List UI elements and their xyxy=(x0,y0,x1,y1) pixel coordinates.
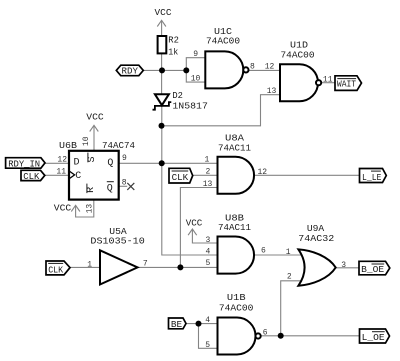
svg-text:L_OE: L_OE xyxy=(362,332,385,343)
flag B_OE output xyxy=(359,261,390,275)
svg-text:12: 12 xyxy=(258,168,268,177)
power VCC below U6B xyxy=(54,202,80,213)
wire RDY to U1C input node xyxy=(143,69,186,71)
svg-text:74AC00: 74AC00 xyxy=(206,36,240,47)
svg-text:R2: R2 xyxy=(168,34,179,45)
svg-text:74AC00: 74AC00 xyxy=(219,302,254,313)
svg-text:B_OE: B_OE xyxy=(361,264,384,275)
wire VCC to U8B pin3 xyxy=(192,229,217,243)
wire U6B pin13 to VCC xyxy=(76,200,94,217)
junction Q net node xyxy=(159,160,165,166)
svg-text:7: 7 xyxy=(143,259,148,268)
wire BE to U1B pin4 xyxy=(186,323,218,325)
svg-text:13: 13 xyxy=(267,87,277,96)
svg-text:D: D xyxy=(74,158,80,169)
svg-text:2: 2 xyxy=(205,168,210,177)
wire U9A pin2 riser from U1B out xyxy=(281,281,303,336)
junction BE node xyxy=(196,321,202,327)
flag CLK input (U8A) active low xyxy=(169,168,193,183)
svg-text:10: 10 xyxy=(82,136,91,146)
wire U1D out to WAIT xyxy=(321,82,335,84)
wire U8B out to U9A pin1 xyxy=(254,254,303,256)
svg-text:RDY: RDY xyxy=(122,66,139,77)
wire RDY_IN to U6B D xyxy=(45,162,69,164)
nand U1C 74AC00 xyxy=(191,26,255,88)
flag RDY_IN input xyxy=(6,158,45,170)
junction D2 cathode node xyxy=(159,123,165,129)
junction delayed clock node xyxy=(177,264,183,270)
flag BE input xyxy=(169,318,187,330)
svg-text:4: 4 xyxy=(205,316,210,325)
wire U1C out to U1D pin12 xyxy=(249,69,281,71)
svg-text:74AC11: 74AC11 xyxy=(218,222,251,233)
svg-text:11: 11 xyxy=(56,167,66,176)
svg-text:Q: Q xyxy=(107,184,113,195)
svg-text:1: 1 xyxy=(286,248,291,257)
flag CLK input (U5A) active low xyxy=(46,261,70,275)
svg-text:Q: Q xyxy=(107,158,113,169)
wire U1B out to L_OE xyxy=(261,335,360,337)
svg-text:5: 5 xyxy=(205,341,210,350)
svg-text:VCC: VCC xyxy=(54,202,72,213)
svg-text:12: 12 xyxy=(265,62,275,71)
wire VCC stem to R2 top xyxy=(161,21,163,37)
wire U1C pin9 L xyxy=(186,58,205,71)
svg-text:13: 13 xyxy=(86,204,95,214)
svg-text:DS1035-10: DS1035-10 xyxy=(90,235,145,246)
flag WAIT output active low xyxy=(335,76,362,91)
wire U1C pin10 L xyxy=(186,70,205,82)
svg-text:74AC74: 74AC74 xyxy=(102,140,135,151)
junction RDY node xyxy=(159,67,165,73)
svg-text:11: 11 xyxy=(323,75,333,84)
wire R2 bottom through RDY node to D2 anode xyxy=(161,53,163,94)
svg-text:U6B: U6B xyxy=(59,140,77,151)
svg-text:8: 8 xyxy=(122,179,127,188)
svg-text:6: 6 xyxy=(261,246,266,255)
wire U8A pin13 to delayed clock node xyxy=(180,188,217,268)
wire U6B Qbar stub xyxy=(119,185,128,187)
flag L_OE output xyxy=(360,329,390,343)
junction U1C input node xyxy=(183,67,189,73)
svg-text:VCC: VCC xyxy=(186,217,203,228)
and U8A 74AC11 xyxy=(203,133,268,194)
svg-text:WAIT: WAIT xyxy=(337,79,357,90)
svg-text:4: 4 xyxy=(205,247,210,256)
wire node to U1D pin13 riser xyxy=(162,95,281,126)
svg-text:1: 1 xyxy=(204,156,209,165)
svg-text:D2: D2 xyxy=(172,90,183,101)
power VCC at U8B pin3 xyxy=(186,217,203,235)
svg-text:5: 5 xyxy=(205,259,210,268)
svg-text:VCC: VCC xyxy=(86,112,104,123)
svg-text:8: 8 xyxy=(250,62,255,71)
svg-text:CLK: CLK xyxy=(48,264,63,275)
wire U5A out to U8B pin5 xyxy=(138,266,218,268)
wire CLK to U6B C xyxy=(45,174,69,176)
svg-text:10: 10 xyxy=(191,74,201,83)
wire U8A out to L_LE xyxy=(254,174,360,176)
svg-text:1N5817: 1N5817 xyxy=(172,101,208,112)
wire U6B Q to U8A pin1 xyxy=(119,162,218,164)
svg-text:VCC: VCC xyxy=(155,7,172,18)
flag RDY (bidirectional) xyxy=(116,65,143,77)
svg-text:9: 9 xyxy=(122,154,127,163)
power VCC top (R2) xyxy=(155,7,172,27)
svg-text:R: R xyxy=(86,187,97,193)
svg-text:12: 12 xyxy=(57,155,67,164)
flip-flop U6B 74AC74 xyxy=(56,136,135,213)
nand U1B 74AC00 xyxy=(205,292,268,354)
svg-text:74AC00: 74AC00 xyxy=(281,50,315,61)
svg-text:BE: BE xyxy=(171,319,183,330)
svg-text:9: 9 xyxy=(193,50,198,59)
resistor R2 xyxy=(158,34,180,57)
junction L_OE node xyxy=(278,333,284,339)
svg-text:1: 1 xyxy=(87,260,92,269)
svg-text:S: S xyxy=(87,156,98,162)
wire CLK flag to U8A pin2 xyxy=(193,174,218,176)
svg-text:3: 3 xyxy=(341,261,346,270)
wire D2 cathode down to U8B pin4 bend xyxy=(162,106,218,255)
and U8B 74AC11 xyxy=(205,212,266,273)
svg-text:CLK: CLK xyxy=(172,172,189,183)
nand U1D 74AC00 xyxy=(265,40,333,101)
buffer U5A DS1035-10 xyxy=(87,226,148,285)
svg-text:CLK: CLK xyxy=(23,171,39,182)
clock triangle xyxy=(69,171,75,179)
svg-text:C: C xyxy=(75,171,81,182)
svg-text:2: 2 xyxy=(287,272,292,281)
no-connect X on Q-bar xyxy=(127,183,134,190)
svg-text:74AC11: 74AC11 xyxy=(218,142,251,153)
flag L_LE output xyxy=(360,169,387,183)
wire U6B pin10 VCC stub xyxy=(93,126,95,151)
wire U9A out to B_OE xyxy=(336,267,359,269)
flag CLK input (U6B) xyxy=(21,170,45,182)
svg-text:RDY_IN: RDY_IN xyxy=(8,158,40,169)
svg-text:L_LE: L_LE xyxy=(362,172,382,183)
svg-text:U9A: U9A xyxy=(307,223,325,234)
svg-text:6: 6 xyxy=(263,328,268,337)
power VCC above U6B xyxy=(86,112,104,132)
diode D2 1N5817 xyxy=(153,90,208,112)
wire CLK to U5A in xyxy=(70,266,100,268)
svg-text:74AC32: 74AC32 xyxy=(298,233,334,244)
wire BE node to U1B pin5 xyxy=(199,324,218,349)
or U9A 74AC32 xyxy=(286,223,347,286)
svg-text:3: 3 xyxy=(205,236,210,245)
svg-text:13: 13 xyxy=(203,180,213,189)
svg-text:1k: 1k xyxy=(168,46,178,57)
